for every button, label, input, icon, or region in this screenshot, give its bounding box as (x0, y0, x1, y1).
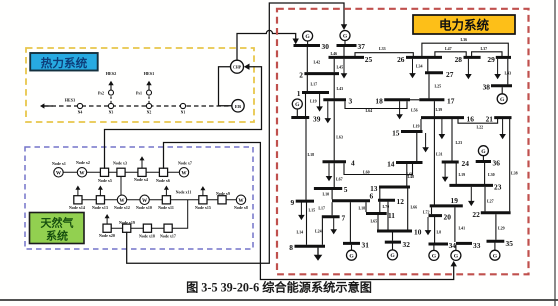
wire CHP heat bracket to EB and heat pipe (219, 67, 232, 106)
bus 14 (396, 161, 423, 164)
generator G37 (340, 31, 350, 41)
gas pipe row 3 (107, 227, 168, 229)
svg-text:37: 37 (358, 42, 366, 51)
power system boundary (red dashed) (277, 9, 529, 275)
svg-text:19: 19 (451, 196, 459, 205)
svg-text:G: G (343, 34, 348, 40)
line 30-2 L42 (306, 47, 308, 72)
bus 1 (302, 91, 329, 94)
line 36-23 L30 (484, 163, 486, 184)
svg-text:N2: N2 (147, 111, 152, 115)
bus 16 (421, 116, 464, 119)
gas pipe row2-row3 connector (172, 200, 188, 228)
svg-text:L37: L37 (481, 46, 488, 51)
svg-text:L23: L23 (456, 140, 463, 145)
svg-text:L10: L10 (323, 192, 330, 197)
svg-text:N1: N1 (181, 111, 186, 115)
line 23-22 L27 (484, 187, 486, 212)
svg-text:Node x18: Node x18 (139, 234, 155, 239)
svg-text:Node x10: Node x10 (136, 205, 152, 210)
svg-text:G: G (295, 102, 300, 108)
line 24-23 L19 (455, 163, 457, 184)
gas riser node x5 to CHP (fuel line) (105, 67, 262, 169)
svg-text:G: G (349, 253, 354, 259)
line 26-27 L34 (427, 59, 429, 72)
bus 3 (323, 98, 346, 101)
svg-text:L46: L46 (331, 51, 338, 56)
svg-text:5: 5 (344, 185, 348, 194)
svg-text:Node x19: Node x19 (119, 220, 135, 225)
transformer 19-20 L72 (431, 207, 433, 214)
svg-text:电力系统: 电力系统 (439, 18, 490, 33)
svg-text:W: W (181, 171, 187, 177)
bus 5 (314, 187, 342, 190)
svg-text:L47: L47 (445, 46, 452, 51)
gas node x19 (riser to G37) (123, 224, 131, 232)
svg-text:9: 9 (290, 198, 294, 207)
svg-text:Ps1: Ps1 (136, 91, 142, 96)
thermal system boundary (yellow dashed) (26, 48, 254, 122)
page frame bottom rule (0, 299, 558, 301)
generator G38 (497, 94, 507, 104)
svg-text:L8: L8 (437, 230, 442, 235)
svg-text:25: 25 (365, 55, 373, 64)
bus 11 (366, 212, 387, 215)
line 39-9 L18 (305, 119, 307, 200)
svg-text:G: G (432, 254, 437, 260)
svg-text:G: G (493, 253, 498, 259)
svg-text:N4: N4 (78, 111, 83, 115)
bus 38 (491, 84, 512, 87)
svg-text:L15: L15 (309, 208, 316, 213)
svg-text:L63: L63 (336, 135, 343, 140)
bus 29 (496, 56, 511, 59)
svg-text:29: 29 (487, 55, 495, 64)
svg-text:18: 18 (375, 97, 383, 106)
svg-text:Node x15: Node x15 (195, 205, 211, 210)
line 16-24 L23 (451, 119, 453, 161)
svg-text:W: W (238, 198, 244, 204)
svg-text:G: G (454, 254, 459, 260)
svg-text:Node x20: Node x20 (99, 233, 115, 238)
load at bus 26 (412, 59, 414, 74)
svg-text:L22: L22 (477, 125, 484, 130)
transformer 19-33 L41 (454, 207, 456, 242)
svg-text:G: G (500, 97, 505, 103)
bus 17 (419, 98, 444, 101)
svg-text:11: 11 (388, 211, 395, 220)
svg-text:L56: L56 (411, 108, 418, 113)
svg-text:天然气: 天然气 (41, 216, 74, 230)
svg-text:L43: L43 (337, 86, 344, 91)
svg-text:36: 36 (493, 159, 501, 168)
bus 4 (323, 160, 347, 163)
load at bus 18 (399, 101, 401, 115)
svg-text:4: 4 (351, 159, 355, 168)
line 4-5 L67 (333, 163, 335, 187)
load at bus 28 (467, 59, 469, 75)
generator G31 (347, 250, 357, 260)
svg-text:Node x8: Node x8 (234, 205, 248, 210)
line 6-11 L18 (365, 202, 367, 212)
svg-text:24: 24 (462, 159, 470, 168)
line 15-16 L19 (420, 119, 422, 130)
gas pipe row 2 (78, 199, 241, 201)
svg-text:G: G (390, 253, 395, 259)
svg-text:34: 34 (449, 241, 457, 250)
generator G39 (292, 99, 302, 109)
line 14-13 L68 (406, 164, 408, 186)
svg-text:Node x11: Node x11 (158, 205, 174, 210)
line 10-11 L65 (377, 215, 379, 230)
svg-text:L14: L14 (297, 230, 304, 235)
bus 19 (430, 204, 463, 207)
gas well W node x7 (179, 168, 188, 177)
svg-text:21: 21 (486, 115, 494, 124)
svg-text:17: 17 (447, 97, 455, 106)
svg-text:L41: L41 (459, 226, 466, 231)
svg-text:6: 6 (370, 191, 374, 200)
svg-text:31: 31 (362, 241, 370, 250)
svg-text:W: W (56, 171, 62, 177)
line 1-39 L19 (305, 94, 307, 116)
svg-text:W: W (142, 198, 148, 204)
joint 18-17 (410, 99, 419, 101)
svg-text:L38: L38 (511, 170, 518, 175)
transformer 37-25 and load at bus 25 (343, 47, 345, 56)
svg-text:L18: L18 (359, 206, 366, 211)
load at bus 9 (300, 203, 302, 216)
transformer 29-38 L43 (507, 59, 509, 85)
svg-text:Node x5: Node x5 (98, 178, 112, 183)
gas pipe row 1 (59, 171, 185, 173)
generator G36 (478, 146, 488, 156)
gas line node x6 to generator G33 (164, 143, 454, 280)
bus 10 (377, 230, 412, 233)
svg-text:33: 33 (473, 241, 481, 250)
heat export arrow HES3 (44, 105, 53, 107)
line 7-8 L24 (321, 218, 323, 245)
svg-text:L29: L29 (498, 226, 505, 231)
bus 15 (401, 130, 423, 133)
bus 23 (449, 184, 493, 187)
line 4-14 L60 (344, 163, 413, 174)
generator G35 (490, 250, 500, 260)
svg-text:热力系统: 热力系统 (41, 56, 88, 70)
svg-text:L34: L34 (416, 64, 423, 69)
svg-text:14: 14 (387, 159, 395, 168)
gas system label box 天然气系统 (30, 213, 85, 244)
gas well W node x1 (54, 168, 63, 177)
load at bus 1 (319, 94, 321, 107)
svg-text:Node x1: Node x1 (52, 161, 66, 166)
svg-text:L33: L33 (379, 46, 386, 51)
svg-text:1: 1 (297, 89, 301, 98)
svg-text:30: 30 (322, 42, 330, 51)
svg-text:HES1: HES1 (144, 71, 154, 76)
svg-text:L36: L36 (461, 37, 468, 42)
svg-text:G: G (481, 149, 486, 155)
thermal system label box 热力系统 (30, 53, 98, 71)
load at bus 15 (425, 133, 427, 148)
svg-text:Node x13: Node x13 (92, 205, 108, 210)
bus 27 (425, 71, 443, 74)
bus 9 (296, 200, 314, 203)
bus 21 (494, 116, 511, 119)
svg-text:L72: L72 (423, 209, 430, 214)
generator G34 (429, 250, 439, 260)
svg-text:7: 7 (342, 214, 346, 223)
heat node N1 (180, 103, 185, 108)
gas compressor W node x12 (117, 195, 126, 204)
svg-text:26: 26 (397, 55, 405, 64)
load at bus 24 (444, 163, 446, 177)
line 6-7 L17 (331, 202, 333, 215)
svg-text:8: 8 (289, 243, 293, 252)
svg-text:L67: L67 (336, 176, 343, 181)
transformer 6-31 (349, 202, 351, 242)
line 12-10 (387, 202, 389, 230)
svg-text:35: 35 (506, 239, 514, 248)
bus 31 (343, 242, 360, 245)
bus 30 (294, 44, 321, 47)
gas system boundary (blue dashed) (25, 147, 253, 249)
svg-text:L19: L19 (459, 172, 466, 177)
svg-text:32: 32 (403, 240, 411, 249)
gas pipe row1-row2 connector (120, 176, 122, 195)
line 27-17 L25 (428, 74, 430, 98)
svg-text:23: 23 (494, 182, 502, 191)
bus 13 (379, 186, 410, 189)
svg-text:Ps2: Ps2 (98, 91, 104, 96)
load at bus 3 (327, 101, 329, 119)
svg-text:L31: L31 (436, 151, 443, 156)
svg-text:10: 10 (414, 228, 422, 237)
svg-text:L60: L60 (363, 170, 370, 175)
line 2-3 L43b (333, 75, 335, 98)
heat node N4 (77, 103, 82, 108)
generator G32 (388, 250, 398, 260)
svg-text:Node x9: Node x9 (216, 191, 230, 196)
line 9-8 L14 (306, 203, 308, 245)
svg-text:W: W (79, 171, 85, 177)
bus 24 (442, 161, 459, 164)
svg-text:HES3: HES3 (65, 98, 75, 103)
bus 18 (384, 98, 410, 101)
transformer 10-32 (392, 232, 394, 240)
load at bus 21 (502, 119, 504, 135)
svg-text:39: 39 (313, 115, 321, 124)
bus 33 (456, 242, 472, 245)
line 5-6 L10 (331, 190, 333, 200)
svg-text:L64: L64 (366, 108, 373, 113)
line 16-21 L22 (458, 119, 498, 123)
gas line node x19 to generator G37 (127, 3, 344, 263)
line 13-10 L66 (407, 188, 409, 229)
svg-text:L19: L19 (413, 123, 420, 128)
line 25-26 L33 (355, 53, 413, 56)
svg-text:HES2: HES2 (106, 71, 116, 76)
generator G30 (303, 31, 313, 41)
heat source branch HES2 at N3 (110, 95, 112, 103)
svg-text:Node x2: Node x2 (76, 160, 90, 165)
gas compressor W node x10 (140, 195, 149, 204)
bus 12 (378, 199, 395, 202)
svg-text:系统: 系统 (46, 229, 68, 243)
gas node x14 with demand arrow (74, 196, 82, 204)
svg-text:W: W (119, 198, 125, 204)
bus 25 (329, 56, 365, 59)
svg-text:Node x17: Node x17 (160, 234, 176, 239)
svg-text:22: 22 (472, 210, 480, 219)
bus 37 (337, 44, 357, 47)
wire CHP electric output to bus 30 (hop over gas riser) (237, 30, 296, 60)
bus 20 (429, 214, 443, 217)
bus 7 (322, 215, 340, 218)
line 2-1 L17 (306, 75, 308, 91)
gas node x11 with demand arrow (162, 196, 170, 204)
svg-text:L65: L65 (371, 219, 378, 224)
svg-text:图 3-5 39-20-6 综合能源系统示意图: 图 3-5 39-20-6 综合能源系统示意图 (186, 280, 372, 295)
svg-text:L25: L25 (435, 84, 442, 89)
svg-text:Node x7: Node x7 (178, 161, 192, 166)
load at bus 4 (328, 163, 330, 176)
svg-text:L43: L43 (505, 71, 512, 76)
svg-text:L39: L39 (436, 107, 443, 112)
gas node x17 (164, 224, 172, 232)
svg-text:Node x11: Node x11 (176, 190, 192, 195)
gas node x3 (117, 168, 125, 176)
power system label box 电力系统 (413, 15, 515, 34)
svg-text:L19: L19 (310, 99, 317, 104)
gas node x9 (218, 196, 226, 204)
svg-text:Node x14: Node x14 (69, 205, 85, 210)
heat node N3 (108, 103, 113, 108)
load at bus 23 (470, 187, 472, 202)
svg-text:L27: L27 (487, 198, 494, 203)
EB electric boiler (232, 100, 244, 112)
svg-text:Node x6: Node x6 (156, 178, 170, 183)
svg-text:Node x12: Node x12 (114, 205, 130, 210)
bus 32 (385, 241, 401, 244)
svg-text:CHP: CHP (233, 66, 242, 70)
gas node x5 (CHP offtake) (100, 168, 108, 176)
gas node x18 (143, 224, 151, 232)
svg-text:L17: L17 (311, 82, 318, 87)
load at bus 20 (427, 217, 429, 231)
load at bus 29 (497, 59, 499, 75)
svg-text:L45: L45 (337, 65, 344, 70)
svg-text:Node x3: Node x3 (113, 161, 127, 166)
svg-text:15: 15 (392, 128, 400, 137)
line 26-28 L47 (435, 52, 466, 56)
transformer 22-35 L29 (495, 214, 497, 240)
svg-text:Node x4: Node x4 (134, 177, 148, 182)
heat source branch HES1 at N2 (148, 95, 150, 103)
svg-text:L42: L42 (314, 60, 321, 65)
svg-text:38: 38 (483, 83, 491, 92)
svg-text:L24: L24 (315, 228, 322, 233)
gas well W node x8 (236, 195, 245, 204)
line 14-15 L48 (416, 133, 418, 161)
gas node x6 (riser to G33) (159, 168, 167, 176)
gas node x4 with demand arrow (138, 168, 146, 176)
line 2-25 L45 (333, 59, 335, 72)
svg-text:12: 12 (397, 197, 405, 206)
heat node N2 (146, 103, 151, 108)
svg-text:L18: L18 (308, 152, 315, 157)
svg-text:3: 3 (349, 97, 353, 106)
bus 36 (476, 160, 491, 163)
line 3-18 L64 (345, 101, 407, 108)
bus 2 (304, 72, 339, 75)
bus 8 (295, 245, 326, 248)
gas node x15 with demand arrow (199, 196, 207, 204)
transformer 20-34 L8 (434, 217, 436, 243)
CHP unit (231, 60, 244, 73)
svg-text:2: 2 (299, 70, 303, 79)
svg-text:27: 27 (446, 70, 454, 79)
bus 34 (429, 243, 449, 246)
load at bus 8 (317, 248, 319, 256)
svg-text:20: 20 (444, 213, 452, 222)
line 26-29 L36 (422, 43, 508, 56)
svg-text:L66: L66 (411, 204, 418, 209)
load at bus 16 (441, 119, 443, 135)
line 17-16-19 L39 L31 (433, 101, 435, 204)
line 3-4 L63 (333, 101, 335, 160)
generator G33 (451, 250, 461, 260)
bus 39 (291, 116, 309, 119)
bus 28 (464, 56, 481, 59)
bus 6 (332, 199, 370, 202)
svg-text:G: G (305, 34, 310, 40)
line 21-22 L38 (509, 119, 511, 211)
gas well W node x2 (77, 168, 86, 177)
load at bus 7 (333, 218, 335, 230)
svg-text:EB: EB (235, 104, 241, 109)
bus 35 (487, 240, 505, 243)
svg-text:28: 28 (455, 55, 463, 64)
gas node x20 with demand arrow (103, 224, 111, 232)
page frame right border (554, 0, 556, 306)
svg-text:16: 16 (467, 115, 475, 124)
heat pipe main (dashed) (44, 105, 232, 107)
svg-text:N3: N3 (109, 111, 114, 115)
transformer 13-12-11 L70 (379, 188, 381, 199)
gas node x13 with demand arrow (96, 196, 104, 204)
svg-text:L17: L17 (318, 206, 325, 211)
bus 26 (406, 56, 442, 59)
svg-text:L30: L30 (488, 172, 495, 177)
bus 22 (481, 211, 511, 214)
line 28-29 L37 (472, 52, 502, 56)
